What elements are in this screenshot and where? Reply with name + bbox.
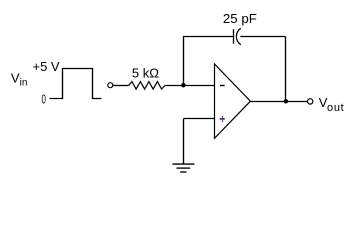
input terminal xyxy=(108,83,113,88)
pulse waveform xyxy=(50,69,102,99)
capacitor C1 25 pF xyxy=(234,28,241,44)
wire input to resistor xyxy=(113,85,129,87)
svg-text:0: 0 xyxy=(42,91,46,106)
node junction at output xyxy=(284,99,289,104)
inverting input minus label xyxy=(220,85,225,87)
resistor R1 5 kOhm xyxy=(129,82,165,90)
feedback wire down to output node xyxy=(285,37,287,102)
op-amp U1 xyxy=(215,64,251,138)
svg-text:in: in xyxy=(20,77,28,88)
node junction at inverting input xyxy=(181,83,186,88)
svg-text:+5 V: +5 V xyxy=(33,59,60,74)
Vout label xyxy=(319,95,345,114)
output wire xyxy=(250,101,307,103)
svg-text:5 kΩ: 5 kΩ xyxy=(132,65,159,80)
ground xyxy=(172,164,194,172)
wire capacitor to feedback corner xyxy=(240,36,285,38)
wire resistor to op-amp inverting input xyxy=(165,85,215,87)
output terminal xyxy=(308,99,313,104)
svg-text:V: V xyxy=(11,71,20,86)
svg-text:25 pF: 25 pF xyxy=(223,11,257,26)
svg-text:out: out xyxy=(327,102,344,114)
wire down to ground xyxy=(183,119,185,165)
wire junction up to capacitor xyxy=(184,37,234,86)
wire non-inverting input xyxy=(184,118,215,120)
Vin label xyxy=(11,71,27,89)
non-inverting input plus label xyxy=(220,116,225,122)
